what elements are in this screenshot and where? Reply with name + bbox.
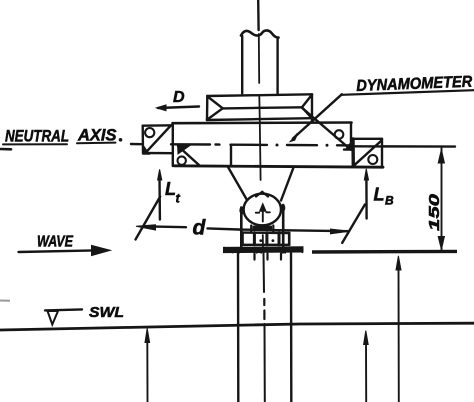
svg-text:L: L	[165, 179, 176, 199]
svg-text:L: L	[374, 185, 385, 205]
svg-text:t: t	[176, 191, 181, 206]
svg-text:SWL: SWL	[89, 304, 124, 321]
svg-text:B: B	[385, 194, 394, 208]
svg-text:WAVE: WAVE	[37, 234, 74, 251]
svg-text:150: 150	[426, 193, 443, 231]
svg-text:AXIS: AXIS	[77, 126, 117, 145]
svg-text:NEUTRAL: NEUTRAL	[5, 126, 69, 145]
svg-text:D: D	[173, 89, 185, 106]
svg-text:d: d	[193, 217, 207, 240]
